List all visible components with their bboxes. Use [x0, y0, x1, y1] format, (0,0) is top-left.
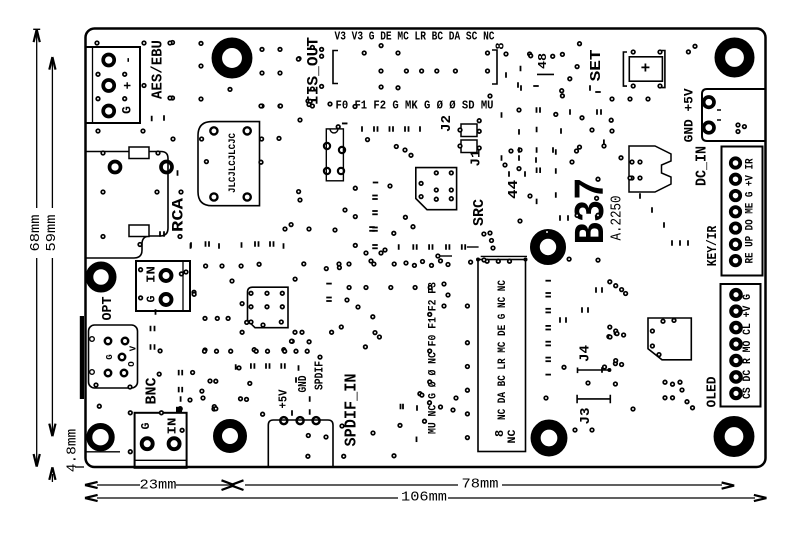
connector DC_IN body: [702, 89, 765, 141]
mounting hole H7 bottom-center-right: [536, 425, 563, 452]
dimension 23mm line: [85, 480, 244, 490]
RCA vias: [96, 129, 183, 246]
wire mark row247 tail: [467, 246, 479, 248]
RCA pad 1: [129, 147, 149, 159]
DC_IN marks: [717, 110, 721, 120]
svg-text:G: G: [120, 106, 135, 114]
label 8 pin count: [494, 42, 508, 49]
svg-text:J2: J2: [439, 115, 455, 132]
OPT pin V: [122, 338, 128, 344]
svg-text:59mm: 59mm: [45, 215, 60, 252]
SPDIF_IN vias: [307, 434, 311, 438]
wire segment top of J5: [481, 255, 527, 257]
svg-text:+: +: [641, 60, 651, 78]
connector IN/G terminal body: [136, 261, 190, 311]
chip U1 label: [227, 132, 239, 193]
dimension 78mm line: [245, 483, 734, 489]
chip U1 vias: [200, 137, 264, 164]
label SRC: [472, 199, 488, 226]
svg-text:BNC: BNC: [144, 378, 161, 405]
chip U1 pads: [210, 127, 251, 200]
dimension 68mm text: [29, 215, 44, 252]
mounting hole H4 bottom-left: [89, 426, 111, 448]
svg-text:G: G: [146, 295, 159, 302]
battery vias: [631, 50, 661, 88]
SPDIF_IN pin SPDIF: [313, 417, 320, 424]
svg-text:SRC: SRC: [472, 199, 488, 226]
svg-text:V3 V3 G DE MC LR BC DA SC NC: V3 V3 G DE MC LR BC DA SC NC: [335, 31, 495, 44]
component Q1 pads: [630, 160, 642, 180]
label J2: [439, 115, 455, 132]
svg-text:JLCJLCJLCJC: JLCJLCJLCJC: [227, 132, 239, 193]
component Y1 pads: [324, 143, 345, 174]
svg-text:NC: NC: [507, 429, 519, 443]
battery holder BT1 brackets: [623, 51, 665, 88]
svg-text:F0 F1 F2 G MK G Ø Ø SD MU: F0 F1 F2 G MK G Ø Ø SD MU: [336, 100, 494, 113]
dimension 23mm text: [140, 479, 177, 494]
wire mark center: [436, 254, 452, 258]
svg-text:RCA: RCA: [170, 198, 188, 232]
svg-text:23mm: 23mm: [140, 479, 177, 494]
OPT pin G: [105, 338, 111, 344]
dimension 106mm line: [85, 495, 767, 501]
KEY/IR pins: [731, 158, 740, 265]
label J3: [578, 408, 594, 425]
connector KEY/IR body: [722, 147, 763, 276]
svg-text:SPDIF: SPDIF: [314, 361, 327, 390]
connector J5 tall footprint: [476, 258, 528, 452]
svg-text:OLED: OLED: [706, 377, 721, 408]
svg-text:RE UP DO ME G +V IR: RE UP DO ME G +V IR: [745, 158, 757, 263]
dimension 59mm text: [45, 215, 60, 252]
mounting hole H2 top-right: [720, 43, 749, 72]
chip U2 pads: [419, 171, 453, 201]
chip U4 pads: [651, 319, 676, 357]
IN pin: [161, 270, 172, 281]
battery holder BT1 body: [629, 57, 662, 81]
mounting hole H1 top-left: [217, 43, 247, 73]
label NC bottom: [507, 429, 519, 443]
component Y1 body: [326, 129, 343, 181]
dimension 78mm text: [462, 478, 499, 493]
pad dash field: [151, 66, 689, 442]
mounting hole H6 center-right: [535, 234, 561, 260]
via field: [95, 41, 697, 458]
OLED pin labels: [742, 294, 754, 399]
label A.2250: [609, 196, 626, 241]
svg-text:106mm: 106mm: [401, 491, 447, 506]
svg-text:DC_IN: DC_IN: [695, 146, 711, 186]
header label row V3..NC: [335, 31, 495, 44]
G pin: [161, 294, 172, 305]
label GND: [297, 375, 310, 392]
label OPT: [101, 297, 116, 321]
DC_IN pin 2: [704, 122, 714, 132]
label BNC: [144, 378, 161, 405]
BNC pin G: [142, 438, 153, 449]
svg-text:NC DA BC LR MC DE G NC NC: NC DA BC LR MC DE G NC NC: [497, 280, 509, 420]
DC_IN pin 1: [704, 97, 714, 107]
RCA dashes: [178, 170, 192, 248]
label OLED: [706, 377, 721, 408]
label 48: [536, 53, 554, 74]
RCA pad 2: [129, 225, 149, 237]
AES/EBU pin 2 (+): [103, 80, 114, 91]
J2 pad 2: [461, 140, 477, 153]
label AES/EBU: [151, 40, 167, 99]
label IIS_OUT: [305, 37, 323, 105]
J2 pad 1: [461, 124, 477, 137]
label J1: [469, 150, 485, 167]
KEY/IR pin labels: [745, 158, 757, 263]
svg-text:KEY/IR: KEY/IR: [706, 225, 721, 266]
AES/EBU vias: [96, 73, 174, 101]
svg-text:GND +5V: GND +5V: [682, 88, 697, 142]
IIS_OUT bracket left: [333, 51, 338, 84]
svg-text:48: 48: [536, 53, 550, 69]
label SPDIF_IN: [342, 374, 361, 447]
svg-text:4.8mm: 4.8mm: [65, 429, 81, 473]
chip U4 body: [648, 318, 691, 360]
svg-text:SET: SET: [588, 49, 605, 81]
header label row F0..MU: [336, 100, 494, 113]
svg-text:8: 8: [493, 430, 507, 437]
extension line bottom-left: [85, 451, 120, 453]
AES/EBU pin label +: [121, 81, 136, 89]
BNC label G: [140, 422, 153, 429]
label DC_IN: [695, 146, 711, 186]
label SPDIF: [314, 361, 327, 390]
component Q1 body: [629, 146, 671, 192]
RCA pin A: [110, 162, 121, 173]
svg-text:J4: J4: [578, 345, 594, 362]
label J4: [578, 345, 594, 362]
IIS_OUT bracket right: [492, 50, 497, 84]
BNC vias: [129, 411, 184, 454]
J3 bracket: [577, 395, 610, 404]
dimension 68mm line: [34, 30, 40, 467]
svg-text:8: 8: [494, 42, 508, 49]
label 8 bottom: [493, 430, 507, 437]
J4 bracket: [578, 362, 618, 373]
connector RCA body: [86, 152, 169, 259]
pin column labels NC..NC: [497, 280, 509, 420]
OPT vias: [94, 383, 132, 389]
dimension 4.8mm arrows: [49, 467, 55, 482]
chip U1 JLC body: [198, 122, 260, 206]
pin column labels MU..F3: [428, 282, 440, 434]
svg-text:78mm: 78mm: [462, 478, 499, 493]
label G: [146, 295, 159, 302]
SPDIF_IN pin GND: [297, 417, 304, 424]
AES/EBU pin 3 (G): [103, 106, 114, 117]
chip U2 SRC body: [416, 168, 457, 210]
svg-text:SPDIF_IN: SPDIF_IN: [342, 374, 361, 447]
DC_IN vias: [736, 123, 746, 133]
dimension 59mm line: [49, 57, 55, 436]
AES/EBU pin label G: [120, 106, 135, 114]
component Y1 via: [336, 123, 347, 128]
label KEY/IR: [706, 225, 721, 266]
SPDIF_IN pin +5V: [280, 417, 287, 424]
connector OLED body: [721, 284, 761, 407]
68mm tip tick: [33, 29, 84, 467]
chip U3 pads: [249, 292, 284, 327]
label SET: [588, 49, 605, 81]
svg-text:G: G: [105, 354, 115, 359]
RCA pin B: [161, 162, 172, 173]
svg-text:V: V: [129, 345, 139, 351]
svg-text:OPT: OPT: [101, 297, 116, 321]
label IN: [146, 266, 159, 283]
mounting hole H8 bottom-right: [719, 422, 749, 452]
battery + mark: [641, 60, 651, 78]
connector OPT body: [89, 325, 138, 388]
mounting hole H3 left-mid: [89, 265, 112, 288]
svg-text:O: O: [127, 361, 137, 367]
IN/G vias: [139, 268, 196, 300]
dimension 106mm text: [401, 491, 447, 506]
PCB board outline: [86, 29, 766, 468]
AES/EBU pin label -: [121, 56, 136, 64]
pad near BNC: [176, 407, 182, 413]
svg-text:A.2250: A.2250: [609, 196, 626, 241]
OLED pins: [731, 290, 740, 398]
label 44: [506, 180, 522, 199]
label RCA: [170, 198, 188, 232]
svg-text:CS DC R MO CL +V G: CS DC R MO CL +V G: [742, 294, 754, 399]
svg-text:-: -: [121, 56, 136, 64]
svg-text:J3: J3: [578, 408, 594, 425]
svg-text:IN: IN: [146, 266, 159, 283]
svg-text:IN: IN: [166, 417, 179, 434]
mounting hole H5 bottom-center-left: [218, 424, 243, 449]
svg-text:MU NC G Ø Ø NC F0 F1 F2 F3: MU NC G Ø Ø NC F0 F1 F2 F3: [428, 282, 440, 434]
connector OPT toslink nose: [80, 316, 84, 399]
svg-text:GND: GND: [297, 375, 310, 392]
chip U3 body: [248, 287, 289, 328]
label +5V: [278, 389, 291, 408]
OPT labels: [105, 345, 139, 367]
OPT pin O: [105, 370, 111, 376]
OPT pin 4: [121, 370, 127, 376]
IIS_OUT vias: [362, 44, 489, 90]
label GND +5V: [682, 88, 697, 142]
svg-text:68mm: 68mm: [29, 215, 44, 252]
J5 top vias: [485, 259, 511, 263]
svg-text:+: +: [121, 81, 136, 89]
svg-text:AES/EBU: AES/EBU: [151, 40, 167, 99]
connector SPDIF_IN body: [268, 420, 333, 467]
connector AES/EBU terminal block body: [86, 47, 141, 123]
J2 vias: [458, 119, 481, 150]
svg-text:G: G: [140, 422, 153, 429]
svg-text:44: 44: [506, 180, 522, 199]
OPT lens: [119, 354, 125, 360]
dimension 4.8mm text: [65, 429, 81, 473]
svg-text:+5V: +5V: [278, 389, 291, 408]
OPT tabs: [90, 337, 95, 375]
connector BNC terminal body: [135, 413, 187, 468]
AES/EBU pin 1 (-): [103, 55, 114, 66]
label B37: [567, 178, 616, 245]
BNC label IN: [166, 417, 179, 434]
BNC pin IN: [169, 438, 180, 449]
